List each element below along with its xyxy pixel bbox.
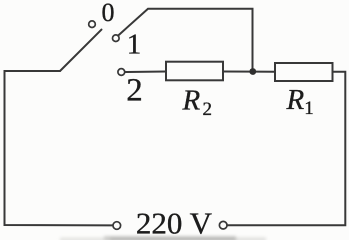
svg-text:2: 2 <box>126 72 143 108</box>
resistor R1 <box>275 63 333 81</box>
junction node <box>249 68 256 75</box>
svg-text:R1: R1 <box>286 84 314 119</box>
wire from R1 right down the right side to right terminal <box>228 72 346 226</box>
switch contact 1 <box>113 35 120 42</box>
svg-text:1: 1 <box>127 29 142 61</box>
switch contact 0 <box>89 21 96 28</box>
switch lever <box>60 30 102 71</box>
resistor R2 <box>166 62 223 81</box>
svg-text:R2: R2 <box>182 85 213 121</box>
wire from contact 1 up and right to junction node <box>119 9 253 72</box>
wire from contact 2 to resistor R2 <box>125 71 166 74</box>
source terminal left <box>113 222 121 230</box>
svg-text:220 V: 220 V <box>136 206 213 240</box>
wire left side loop from switch pole to bottom-left terminal <box>5 71 113 225</box>
wire from R2 through junction to R1 <box>223 71 275 73</box>
scan artifact bottom edge <box>60 236 266 240</box>
switch contact 2 <box>118 69 125 76</box>
source terminal right <box>219 221 227 229</box>
svg-text:0: 0 <box>102 0 115 27</box>
